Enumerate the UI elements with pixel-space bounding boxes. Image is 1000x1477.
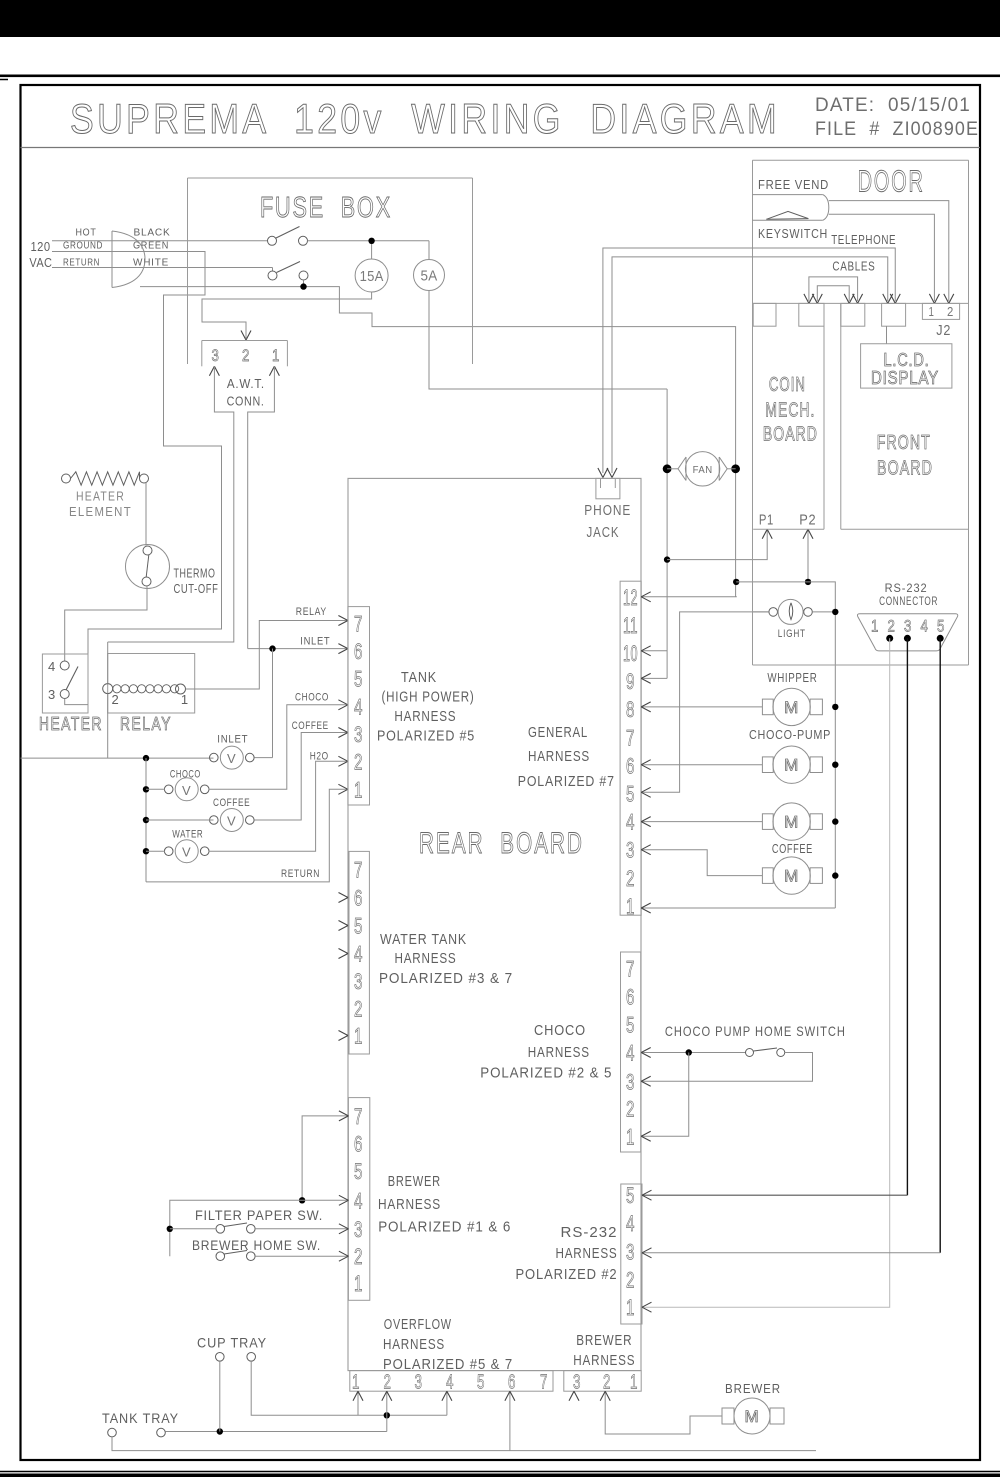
- svg-text:7: 7: [354, 858, 363, 883]
- page bottom black bar: [0, 1474, 1000, 1477]
- svg-text:POLARIZED #5: POLARIZED #5: [377, 728, 475, 745]
- phone jack: [596, 478, 620, 498]
- svg-text:4: 4: [921, 617, 929, 636]
- svg-text:CHOCO: CHOCO: [170, 769, 201, 781]
- svg-text:1: 1: [181, 692, 189, 707]
- svg-text:3: 3: [212, 346, 220, 365]
- svg-text:6: 6: [354, 886, 363, 911]
- svg-text:CONN.: CONN.: [227, 395, 265, 409]
- heater relay coil box: [108, 654, 195, 714]
- light lamp: [753, 611, 769, 613]
- wire pin8 to whipper: [641, 706, 762, 708]
- svg-text:RELAY: RELAY: [296, 606, 327, 618]
- svg-text:3: 3: [48, 687, 56, 702]
- row pin4 arrow: [446, 1391, 448, 1415]
- svg-text:P2: P2: [799, 512, 816, 529]
- svg-text:BREWER: BREWER: [576, 1332, 632, 1349]
- switch SW1 hot: [268, 236, 277, 245]
- cables loop inner: [817, 286, 849, 301]
- svg-text:RETURN: RETURN: [63, 257, 100, 269]
- wire cup tray right to row pin1: [251, 1361, 447, 1415]
- valve CHOCO: [164, 785, 173, 794]
- filter paper switch: [216, 1225, 225, 1234]
- choco pump home switch: [641, 1052, 745, 1054]
- wire fan net to light/motor rail: [736, 582, 835, 908]
- svg-text:1: 1: [272, 346, 280, 365]
- svg-text:M: M: [784, 867, 799, 886]
- brewer harness bottom connector: [564, 1371, 641, 1392]
- svg-text:7: 7: [626, 957, 635, 982]
- wire telephone stub to LCD: [886, 326, 888, 344]
- junction dot SW2: [300, 283, 306, 289]
- svg-text:CABLES: CABLES: [832, 260, 875, 274]
- svg-text:3: 3: [415, 1372, 423, 1394]
- rear board outline: [348, 478, 641, 1370]
- fan left riser from 5A: [666, 389, 668, 678]
- svg-text:FAN: FAN: [693, 465, 713, 476]
- wire AWT pin3 to heater relay: [209, 366, 214, 376]
- valve WATER: [164, 847, 173, 856]
- page bottom rule: [0, 1471, 1000, 1473]
- return rail from frame: [21, 757, 214, 759]
- svg-text:SUPREMA 120v WIRING DIAGRAM: SUPREMA 120v WIRING DIAGRAM: [70, 95, 780, 142]
- switch SW2 return: [268, 271, 277, 280]
- tank tray switch: [108, 1428, 117, 1437]
- svg-text:1: 1: [871, 617, 879, 636]
- svg-text:2: 2: [111, 692, 119, 707]
- wire relay coil pin2: [107, 642, 109, 684]
- svg-text:1: 1: [354, 778, 363, 803]
- svg-text:5: 5: [354, 667, 363, 692]
- svg-text:15A: 15A: [360, 269, 384, 285]
- valve INLET: [210, 753, 219, 762]
- svg-text:P1: P1: [759, 512, 774, 529]
- svg-text:10: 10: [623, 641, 638, 666]
- svg-text:M: M: [784, 698, 799, 717]
- brewer home switch: [216, 1252, 225, 1261]
- svg-text:CUT-OFF: CUT-OFF: [174, 582, 219, 596]
- svg-text:RS-232: RS-232: [561, 1224, 618, 1241]
- svg-text:POLARIZED #5 & 7: POLARIZED #5 & 7: [383, 1356, 513, 1373]
- svg-text:COFFEE: COFFEE: [213, 797, 250, 809]
- telephone wire lower: [612, 257, 888, 473]
- svg-text:TELEPHONE: TELEPHONE: [831, 233, 896, 247]
- svg-text:6: 6: [626, 985, 635, 1010]
- valve COFFEE: [210, 816, 219, 825]
- svg-text:5: 5: [354, 914, 363, 939]
- fuse 5A: [428, 241, 430, 260]
- wire AWT pin1 to inlet net: [269, 366, 274, 376]
- row pin1 arrow: [357, 1391, 359, 1415]
- lower door box bottom: [753, 664, 969, 666]
- svg-text:POLARIZED #2: POLARIZED #2: [516, 1266, 618, 1283]
- svg-text:TANK TRAY: TANK TRAY: [102, 1410, 179, 1426]
- svg-text:MECH.: MECH.: [765, 400, 815, 422]
- front board box: [840, 303, 842, 529]
- wire rs232 pin3 to harness pin5: [906, 638, 908, 1195]
- svg-text:HARNESS: HARNESS: [394, 708, 456, 725]
- svg-text:J2: J2: [936, 322, 951, 339]
- cables loop outer: [809, 277, 858, 301]
- svg-text:HARNESS: HARNESS: [383, 1336, 445, 1353]
- P2 arrow to coin mech: [807, 529, 809, 582]
- wire keyswitch to J2 pin2: [829, 201, 949, 301]
- svg-text:2: 2: [354, 997, 363, 1022]
- svg-text:CHOCO: CHOCO: [534, 1022, 586, 1039]
- wire pin9: [641, 677, 667, 679]
- svg-text:2: 2: [947, 304, 954, 319]
- svg-text:2: 2: [354, 750, 363, 775]
- heater element: [62, 474, 71, 483]
- svg-text:RELAY: RELAY: [120, 714, 172, 734]
- svg-text:CONNECTOR: CONNECTOR: [879, 594, 938, 608]
- svg-text:3: 3: [626, 1240, 635, 1265]
- svg-text:POLARIZED #3 & 7: POLARIZED #3 & 7: [379, 970, 513, 987]
- overflow harness connector row: [350, 1371, 553, 1392]
- svg-text:H2O: H2O: [310, 751, 329, 763]
- svg-text:4: 4: [354, 695, 363, 720]
- wire from plug return: [140, 287, 736, 469]
- svg-text:6: 6: [626, 753, 635, 778]
- svg-text:RS-232: RS-232: [885, 581, 928, 595]
- LCD display box: [861, 344, 952, 388]
- svg-text:ELEMENT: ELEMENT: [69, 504, 132, 519]
- svg-text:POLARIZED #7: POLARIZED #7: [518, 773, 615, 790]
- svg-text:5: 5: [626, 782, 635, 807]
- wire 15A to AWT pin2: [202, 292, 372, 338]
- svg-text:RETURN: RETURN: [281, 868, 320, 880]
- svg-text:COFFEE: COFFEE: [772, 842, 813, 856]
- water tank pin arrows: [339, 893, 349, 898]
- wire tank tray left to row pin6: [112, 1437, 816, 1451]
- svg-text:VAC: VAC: [29, 255, 52, 270]
- relay coil: [103, 684, 113, 694]
- wire element to thermo: [145, 483, 147, 546]
- svg-text:7: 7: [626, 725, 635, 750]
- svg-text:THERMO: THERMO: [174, 567, 216, 581]
- wire WHITE: [52, 267, 273, 269]
- svg-text:11: 11: [623, 613, 638, 638]
- door connector notches: [753, 303, 776, 326]
- svg-text:120: 120: [31, 239, 51, 254]
- svg-text:4: 4: [626, 810, 635, 835]
- svg-text:V: V: [227, 751, 236, 766]
- rs-232 harness connector strip: [621, 1184, 642, 1324]
- svg-text:3: 3: [626, 838, 635, 863]
- svg-text:FREE VEND: FREE VEND: [758, 178, 829, 192]
- svg-text:3: 3: [354, 969, 363, 994]
- svg-text:5: 5: [477, 1372, 485, 1394]
- fuse 15A: [371, 244, 373, 259]
- svg-text:CHOCO-PUMP: CHOCO-PUMP: [749, 728, 831, 742]
- door box: [753, 159, 969, 161]
- svg-text:DISPLAY: DISPLAY: [871, 368, 939, 388]
- tank harness connector strip: [348, 607, 370, 805]
- svg-text:BOARD: BOARD: [877, 458, 933, 480]
- heater relay switch box: [42, 654, 88, 713]
- svg-text:CHOCO: CHOCO: [295, 692, 329, 704]
- wire INLET to rear board pin6: [248, 648, 348, 650]
- svg-text:FRONT: FRONT: [877, 432, 931, 454]
- wire choco valve to pin4: [146, 788, 165, 790]
- svg-text:V: V: [227, 814, 236, 829]
- page top black bar: [0, 0, 1000, 37]
- svg-text:WHIPPER: WHIPPER: [767, 671, 817, 685]
- svg-text:HARNESS: HARNESS: [528, 1044, 590, 1061]
- svg-text:BREWER: BREWER: [725, 1381, 781, 1396]
- wire home switch dot to pin1: [641, 1053, 689, 1137]
- wire keyswitch to J2 pin1: [829, 214, 935, 301]
- svg-text:2: 2: [242, 346, 250, 365]
- top rule line: [0, 75, 1000, 78]
- wire pin6 to choco pump: [641, 764, 762, 766]
- wire HOT/BLACK: [52, 240, 268, 242]
- wire pin1 motor rail: [641, 907, 835, 909]
- svg-text:PHONE: PHONE: [584, 502, 631, 519]
- wire water valve to pin2 H2O: [146, 850, 165, 852]
- svg-text:5: 5: [937, 617, 945, 636]
- svg-text:3: 3: [354, 722, 363, 747]
- brewer motor: [722, 1408, 734, 1424]
- svg-text:COFFEE: COFFEE: [292, 720, 329, 732]
- svg-text:4: 4: [48, 659, 56, 674]
- wire rs232 pin2 to harness pin1: [642, 638, 890, 1307]
- svg-text:1: 1: [626, 1295, 635, 1320]
- fan: [667, 468, 678, 470]
- choco harness connector strip: [621, 952, 641, 1152]
- svg-text:1: 1: [626, 1124, 635, 1149]
- svg-text:JACK: JACK: [587, 524, 620, 541]
- relay switch blade: [66, 667, 78, 691]
- svg-text:HARNESS: HARNESS: [395, 950, 457, 967]
- svg-text:POLARIZED #2 & 5: POLARIZED #2 & 5: [480, 1065, 612, 1082]
- svg-text:2: 2: [626, 866, 635, 891]
- svg-text:COIN: COIN: [769, 374, 806, 396]
- wire RETURN to pin1: [146, 789, 348, 882]
- svg-text:4: 4: [354, 942, 363, 967]
- row pin6 arrow: [509, 1391, 511, 1450]
- svg-text:9: 9: [626, 669, 635, 694]
- svg-text:M: M: [784, 813, 799, 832]
- wire thermo to relay pin4: [65, 586, 147, 661]
- wire cup tray left down: [219, 1361, 221, 1431]
- rs-232 pin dots: [886, 635, 893, 642]
- svg-text:3: 3: [626, 1069, 635, 1094]
- svg-text:FILE # ZI00890E: FILE # ZI00890E: [815, 118, 979, 140]
- motor: [762, 814, 773, 830]
- svg-text:OVERFLOW: OVERFLOW: [384, 1316, 452, 1333]
- wire rs232 pin5 to harness pin3: [939, 638, 941, 1253]
- svg-text:HARNESS: HARNESS: [378, 1196, 441, 1213]
- svg-text:REAR BOARD: REAR BOARD: [419, 827, 584, 860]
- svg-text:A.W.T.: A.W.T.: [227, 377, 265, 391]
- svg-text:3: 3: [573, 1372, 581, 1394]
- svg-text:1: 1: [352, 1372, 360, 1394]
- svg-text:BOARD: BOARD: [763, 424, 818, 446]
- row pin2 arrow: [386, 1391, 388, 1431]
- left valve rail: [145, 758, 147, 882]
- relay pin 4: [60, 661, 69, 670]
- brewer pin3 arrowhead: [569, 1391, 574, 1401]
- thermo cut-off: [126, 545, 170, 589]
- svg-text:V: V: [182, 845, 191, 860]
- svg-text:4: 4: [354, 1188, 363, 1213]
- svg-text:HARNESS: HARNESS: [573, 1352, 635, 1369]
- wire coffee valve to pin3: [146, 819, 214, 821]
- brewer harness connector strip: [348, 1098, 369, 1301]
- wire light to pin5: [641, 612, 769, 792]
- svg-text:CHOCO PUMP HOME SWITCH: CHOCO PUMP HOME SWITCH: [665, 1023, 846, 1039]
- svg-text:6: 6: [354, 1132, 363, 1157]
- telephone wire upper: [603, 248, 895, 473]
- svg-text:FILTER PAPER SW.: FILTER PAPER SW.: [195, 1208, 323, 1223]
- svg-text:HARNESS: HARNESS: [556, 1245, 618, 1262]
- svg-text:V: V: [182, 783, 191, 798]
- svg-text:WATER TANK: WATER TANK: [380, 931, 467, 948]
- wire 5A down to fan net: [429, 291, 667, 390]
- motor: [762, 699, 773, 715]
- svg-text:DOOR: DOOR: [858, 164, 925, 199]
- svg-text:2: 2: [603, 1372, 611, 1394]
- motor: [762, 868, 773, 884]
- svg-text:M: M: [784, 756, 799, 775]
- svg-text:HOT: HOT: [76, 227, 97, 239]
- svg-text:(HIGH POWER): (HIGH POWER): [382, 689, 475, 706]
- svg-text:5: 5: [626, 1013, 635, 1038]
- svg-text:1: 1: [626, 894, 635, 919]
- svg-text:HARNESS: HARNESS: [528, 748, 590, 765]
- svg-text:HEATER: HEATER: [76, 489, 125, 504]
- svg-text:M: M: [745, 1407, 760, 1426]
- AWT connector box: [202, 340, 288, 342]
- svg-text:5: 5: [626, 1183, 635, 1208]
- svg-text:DATE: 05/15/01: DATE: 05/15/01: [815, 94, 971, 116]
- svg-text:GENERAL: GENERAL: [528, 724, 588, 741]
- svg-text:12: 12: [623, 585, 638, 610]
- svg-text:KEYSWITCH: KEYSWITCH: [758, 227, 828, 241]
- cup tray switch: [216, 1353, 225, 1362]
- svg-text:3: 3: [904, 617, 912, 636]
- wire home switch to pin3: [641, 1053, 812, 1082]
- svg-text:8: 8: [626, 697, 635, 722]
- svg-text:BLACK: BLACK: [134, 227, 171, 239]
- wire tank tray to row pin2: [165, 1431, 386, 1433]
- svg-text:5: 5: [354, 1159, 363, 1184]
- svg-text:BREWER: BREWER: [388, 1173, 441, 1190]
- wire SW1 to fuses: [308, 240, 430, 242]
- svg-text:4: 4: [626, 1041, 635, 1066]
- svg-text:4: 4: [446, 1372, 454, 1394]
- water tank harness connector strip: [349, 851, 369, 1054]
- wire relay pin3: [65, 699, 88, 705]
- svg-text:1: 1: [354, 1271, 363, 1296]
- wire brewer pin4: [170, 1200, 349, 1256]
- svg-text:CUP TRAY: CUP TRAY: [197, 1335, 267, 1351]
- general harness connector strip: [620, 581, 641, 915]
- door connector row: [753, 302, 969, 304]
- svg-text:TANK: TANK: [401, 669, 437, 686]
- connector J2: [922, 303, 959, 319]
- wire pin10: [641, 650, 667, 652]
- svg-text:7: 7: [354, 1104, 363, 1129]
- wire brewer pin7 riser: [302, 1116, 348, 1200]
- svg-text:6: 6: [354, 639, 363, 664]
- title separator line: [21, 147, 981, 149]
- wire pin4 to motor: [641, 821, 762, 823]
- svg-text:L.C.D.: L.C.D.: [884, 350, 930, 370]
- coin mech board box: [823, 303, 825, 529]
- svg-text:6: 6: [508, 1372, 516, 1394]
- svg-text:INLET: INLET: [300, 636, 330, 648]
- wire GREEN to relay: [52, 252, 222, 655]
- svg-text:WATER: WATER: [172, 829, 203, 841]
- svg-text:WHITE: WHITE: [133, 257, 169, 269]
- svg-text:2: 2: [626, 1096, 635, 1121]
- wire brewer pin2 to brewer motor: [605, 1391, 722, 1434]
- svg-text:1: 1: [354, 1024, 363, 1049]
- keyswitch: [753, 194, 823, 196]
- fan right riser: [735, 469, 737, 597]
- svg-text:4: 4: [626, 1211, 635, 1236]
- svg-text:3: 3: [354, 1217, 363, 1242]
- svg-text:2: 2: [888, 617, 896, 636]
- plug connector body: [112, 231, 145, 288]
- svg-text:POLARIZED #1 & 6: POLARIZED #1 & 6: [378, 1219, 511, 1236]
- svg-text:BREWER HOME SW.: BREWER HOME SW.: [192, 1238, 321, 1253]
- rs-232 connector shell: [857, 614, 957, 651]
- svg-text:HEATER: HEATER: [39, 714, 103, 734]
- svg-text:7: 7: [540, 1372, 548, 1394]
- wire pin3 to coffee motor: [641, 850, 762, 876]
- svg-text:1: 1: [929, 304, 935, 319]
- svg-text:1: 1: [630, 1372, 638, 1394]
- fuse box outline: [188, 177, 473, 179]
- svg-text:2: 2: [354, 1244, 363, 1269]
- wire pin12: [641, 596, 737, 598]
- motor: [762, 757, 773, 773]
- svg-text:2: 2: [384, 1372, 392, 1394]
- wire relay coil pin1 to rear board pin7 RELAY: [186, 621, 348, 690]
- P1 arrow to coin mech: [667, 529, 767, 559]
- svg-text:FUSE BOX: FUSE BOX: [260, 192, 392, 224]
- svg-text:7: 7: [354, 612, 363, 637]
- junction dot fuse top: [368, 238, 374, 244]
- svg-text:LIGHT: LIGHT: [778, 628, 806, 640]
- svg-text:2: 2: [626, 1268, 635, 1293]
- wire inlet valve to riser: [254, 757, 272, 759]
- svg-text:5A: 5A: [421, 269, 438, 285]
- relay pin 3: [60, 690, 69, 699]
- svg-text:INLET: INLET: [217, 734, 248, 746]
